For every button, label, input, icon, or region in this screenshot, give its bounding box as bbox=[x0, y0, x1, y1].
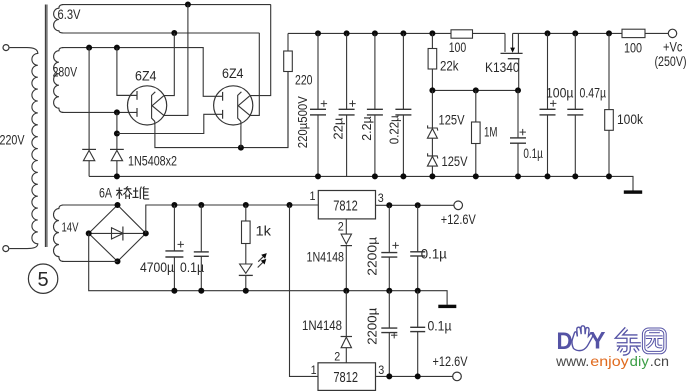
resistor R1 220 bbox=[287, 33, 289, 51]
svg-text:1M: 1M bbox=[484, 125, 498, 140]
wire 280V bottom lead to tube1 lower pin bbox=[62, 111, 137, 113]
diode D5 1N4148 bbox=[345, 291, 347, 337]
svg-text:www.: www. bbox=[555, 354, 589, 369]
capacitor 0.22µ bbox=[402, 33, 404, 109]
node zener/gnd bbox=[429, 173, 435, 179]
wire tube V1 upper pin bbox=[117, 94, 137, 96]
node 280V top branch bbox=[114, 45, 120, 51]
node 1M/gnd bbox=[473, 173, 479, 179]
terminal +12.6V (top) bbox=[454, 201, 463, 210]
node gnd cap3 bbox=[372, 173, 378, 179]
node gate/0.1u bbox=[515, 87, 521, 93]
node rail / cap 2.2µ bbox=[372, 30, 378, 36]
diode D1 1N5408 bbox=[88, 48, 90, 150]
zener ZD2 125V bbox=[431, 138, 433, 156]
capacitor 2.2µ bbox=[374, 33, 376, 109]
wire branch down to tube1 plate bbox=[117, 48, 137, 96]
svg-text:100µ: 100µ bbox=[546, 86, 574, 101]
svg-text:1N4148: 1N4148 bbox=[307, 250, 345, 265]
node 280V bottom branch bbox=[114, 109, 120, 115]
svg-text:14V: 14V bbox=[62, 219, 79, 234]
svg-text:22µ: 22µ bbox=[331, 117, 346, 140]
mosfet Q1 K1340 bbox=[504, 33, 506, 52]
svg-text:125V: 125V bbox=[442, 154, 468, 169]
capacitor C9 0.1µ bbox=[198, 202, 204, 208]
wire heater A down to tube1 lower-right bbox=[164, 5, 188, 116]
wire heater B down to tube2 lower-right bbox=[250, 33, 259, 115]
resistor R7 1k bbox=[243, 202, 249, 208]
svg-text:1: 1 bbox=[310, 189, 316, 203]
wire 280V top lead to tube2 plate bbox=[62, 48, 223, 97]
winding 14V bbox=[54, 205, 64, 261]
capacitor C11 0.1µ bbox=[415, 202, 421, 208]
node D2 anode on rail bbox=[114, 173, 120, 179]
capacitor C13 0.1µ bbox=[417, 291, 419, 328]
terminal +Vc bbox=[668, 29, 676, 37]
wire bbox=[9, 248, 27, 250]
svg-text:6Z4: 6Z4 bbox=[222, 66, 244, 81]
svg-text:2.2µ: 2.2µ bbox=[359, 116, 374, 141]
capacitor C8 4700µ bbox=[171, 202, 177, 208]
svg-text:1N4148: 1N4148 bbox=[302, 318, 342, 333]
svg-text:3: 3 bbox=[378, 191, 384, 205]
svg-text:K1340: K1340 bbox=[485, 60, 520, 75]
label 堆 (hanzi) bbox=[133, 190, 138, 192]
svg-text:0.1µ: 0.1µ bbox=[523, 146, 543, 161]
capacitor C6 100µ bbox=[545, 30, 551, 36]
winding 280V bbox=[54, 48, 64, 113]
node gnd cap1 bbox=[315, 173, 321, 179]
svg-text:0.47µ: 0.47µ bbox=[580, 86, 607, 101]
wire B+ rail left bbox=[288, 32, 451, 34]
wire down to diode D2 bbox=[116, 112, 118, 149]
mosfet gate electrode bbox=[508, 58, 520, 60]
svg-text:100: 100 bbox=[449, 40, 467, 55]
capacitor C12 2200µ bbox=[388, 291, 390, 328]
wire bbox=[10, 47, 27, 49]
svg-text:Y: Y bbox=[590, 328, 606, 355]
zener ZD1 125V bbox=[431, 90, 433, 128]
wire heater B down to tube1 upper-right bbox=[163, 33, 174, 96]
svg-text:6.3V: 6.3V bbox=[58, 7, 81, 22]
regulator U2 7812 bbox=[318, 363, 376, 391]
wire heater A down to tube2 upper-right bbox=[250, 5, 271, 96]
svg-text:+12.6V: +12.6V bbox=[433, 354, 468, 369]
svg-text:2200µ: 2200µ bbox=[365, 236, 380, 276]
bridge inner diode bbox=[89, 232, 146, 234]
capacitor 22µ bbox=[346, 33, 348, 109]
wire gate node rail bbox=[432, 89, 518, 91]
wire riser to lower 7812 bbox=[290, 205, 319, 376]
svg-text:+12.6V: +12.6V bbox=[441, 212, 476, 227]
svg-text:0.1µ: 0.1µ bbox=[180, 260, 204, 275]
svg-text:0.22µ: 0.22µ bbox=[386, 115, 401, 144]
svg-text:diy: diy bbox=[630, 354, 649, 369]
wire bridge left drop bbox=[89, 233, 447, 305]
transformer T1 primary terminal (bottom) bbox=[3, 246, 9, 252]
svg-text:6A: 6A bbox=[99, 185, 112, 200]
wire 14V top lead bbox=[62, 204, 118, 206]
svg-text:220V: 220V bbox=[0, 133, 25, 148]
wire heater line A (6.3V top) bbox=[62, 4, 271, 6]
svg-text:+Vc: +Vc bbox=[663, 39, 683, 54]
capacitor C7 0.47µ bbox=[572, 30, 578, 36]
wire cathode line bbox=[155, 72, 288, 148]
wire gate down bbox=[518, 59, 520, 91]
node rail / cap 22µ bbox=[344, 30, 350, 36]
diode D2 1N5408 bbox=[110, 148, 124, 150]
terminal +12.6V (bottom) bbox=[453, 372, 462, 381]
node R6/gnd bbox=[606, 173, 612, 179]
svg-text:enjoy: enjoy bbox=[590, 354, 629, 369]
capacitor C5 0.1µ bbox=[517, 90, 519, 137]
watermark hand glyph bbox=[572, 326, 593, 351]
svg-text:5: 5 bbox=[38, 269, 49, 291]
node C7/gnd bbox=[572, 173, 578, 179]
wire heater line B (6.3V bottom) bbox=[62, 32, 259, 34]
svg-text:3: 3 bbox=[378, 363, 384, 377]
svg-text:4700µ: 4700µ bbox=[140, 260, 174, 275]
svg-text:2: 2 bbox=[338, 220, 344, 234]
node heater A / tube1 junction bbox=[185, 2, 191, 8]
circled number 5 bbox=[28, 264, 57, 293]
svg-text:100: 100 bbox=[624, 40, 642, 55]
svg-text:1: 1 bbox=[311, 363, 317, 377]
winding 6.3V bbox=[54, 5, 271, 33]
svg-text:1N5408x2: 1N5408x2 bbox=[128, 153, 177, 168]
svg-text:280V: 280V bbox=[53, 64, 78, 79]
wire rail to mosfet bbox=[473, 32, 506, 34]
node 22k/zener bbox=[429, 87, 435, 93]
transformer T1 primary terminal (top) bbox=[3, 45, 9, 51]
svg-text:D: D bbox=[557, 328, 573, 355]
bridge rectifier 6A bbox=[89, 205, 146, 261]
node gnd cap4 bbox=[400, 173, 406, 179]
node rail / cap 220µ500V bbox=[315, 30, 321, 36]
ground symbol (HV) bbox=[624, 190, 642, 193]
LED D3 bbox=[240, 264, 252, 273]
transformer core bbox=[44, 5, 46, 248]
resistor R6 100k bbox=[606, 30, 612, 36]
node C6/gnd bbox=[545, 173, 551, 179]
node 1M top bbox=[473, 87, 479, 93]
node bridge top bbox=[115, 202, 121, 208]
node bridge left bbox=[86, 230, 92, 236]
svg-text:100k: 100k bbox=[617, 112, 643, 127]
node C5/gnd bbox=[515, 173, 521, 179]
ground rail (HV section) bbox=[89, 176, 633, 190]
tube V2 6Z4 bbox=[214, 86, 253, 125]
wire tube V2 cathode lead bbox=[240, 126, 242, 148]
tube V1 6Z4 bbox=[128, 86, 167, 125]
node tube2 lower pin wire junction bbox=[114, 131, 120, 137]
watermark 乐 (hanzi, bubble outline) bbox=[619, 329, 638, 337]
wire U2 output bbox=[376, 375, 453, 377]
resistor R3 100 (left) bbox=[451, 30, 473, 38]
resistor R4 100 (right) bbox=[622, 29, 645, 37]
diode D4 1N4148 bbox=[345, 219, 347, 234]
node 280V top / D1 bbox=[86, 45, 92, 51]
svg-text:0.1µ: 0.1µ bbox=[421, 247, 447, 262]
capacitor 220µ500V bbox=[317, 33, 319, 109]
svg-text:.cn: .cn bbox=[650, 354, 669, 369]
wire bridge right riser bbox=[146, 205, 318, 233]
wire U1 output bbox=[376, 204, 455, 206]
svg-text:0.1µ: 0.1µ bbox=[428, 318, 452, 333]
svg-text:7812: 7812 bbox=[333, 369, 358, 386]
node rail A / riser to 7812-2 bbox=[287, 202, 293, 208]
label 桥 (hanzi) bbox=[118, 187, 120, 199]
ground symbol (LV) bbox=[438, 305, 456, 308]
svg-text:(250V): (250V) bbox=[655, 54, 687, 69]
svg-text:220µ500V: 220µ500V bbox=[295, 96, 310, 148]
LED arrows bbox=[258, 256, 263, 261]
node rail / R2 22k bbox=[429, 30, 435, 36]
wire tube2 lower pin to node bbox=[117, 114, 223, 133]
wire 14V bottom lead bbox=[62, 260, 118, 262]
capacitor C10 2200µ bbox=[386, 202, 392, 208]
svg-text:125V: 125V bbox=[439, 112, 465, 127]
svg-text:2200µ: 2200µ bbox=[365, 307, 380, 345]
node tube V2 cathode junction bbox=[238, 145, 244, 151]
watermark 园 (hanzi, bubble outline) bbox=[644, 329, 665, 352]
node heater B / tube1 junction bbox=[171, 30, 177, 36]
node bridge bottom bbox=[115, 258, 121, 264]
svg-text:2: 2 bbox=[334, 350, 340, 364]
resistor R2 22k bbox=[431, 33, 433, 48]
svg-text:22k: 22k bbox=[440, 59, 459, 74]
svg-text:7812: 7812 bbox=[333, 197, 358, 214]
transformer T1 primary winding 220V bbox=[27, 48, 38, 249]
regulator U1 7812 bbox=[318, 191, 375, 219]
node bridge right bbox=[143, 230, 149, 236]
resistor R5 1M bbox=[475, 90, 477, 122]
svg-text:1k: 1k bbox=[256, 224, 272, 239]
svg-text:6Z4: 6Z4 bbox=[135, 69, 157, 84]
node rail / cap 0.22µ bbox=[400, 30, 406, 36]
wire B+ rail right bbox=[513, 32, 669, 34]
svg-text:220: 220 bbox=[295, 73, 313, 88]
